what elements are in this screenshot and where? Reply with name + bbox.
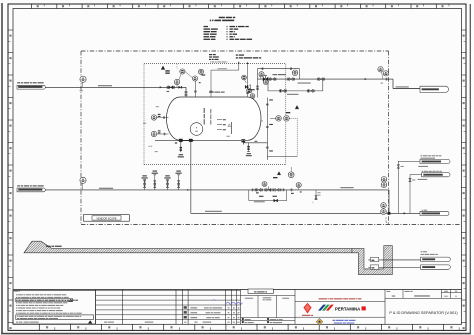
PSV valve dark on flare line [263,76,268,82]
dashed corner bottom [386,218,390,225]
drain stub with valve [178,142,184,157]
PERTAMINA arrows [318,305,334,311]
border ruler ticks bottom [39,324,459,330]
instrument bubble PG [185,72,198,82]
bubble LSL [284,116,290,122]
nozzle flange 2 [189,139,193,142]
riser to pressure instruments [176,85,178,88]
nozzle 243 drop [241,139,268,148]
logo divider 2 [295,316,385,318]
off-page connector 2 [422,173,450,177]
contractor diamond logo [316,318,323,325]
vent riser via header [210,62,240,98]
PSV set text block [209,54,228,62]
water line label [99,188,113,189]
water line corner down at boundary [388,190,391,215]
PSHH tag text [165,70,169,71]
burn pit hatched [352,246,392,275]
vessel V-501 shell [167,97,262,140]
right title grid [385,290,462,299]
notes text [16,294,82,313]
elbow into inlet nozzle [185,87,188,97]
pit pipe 1 [368,257,420,261]
vendor scope boundary dash-dot [81,51,460,225]
SDV valve on feed line [167,86,175,92]
vent line label [218,67,227,70]
LG dotted loop [289,118,297,156]
boundary tick flare [381,78,387,84]
valve flare 3 [318,78,325,81]
branch up 2 [409,175,422,214]
valve flare 1 [269,78,276,81]
off-page connector water [17,185,45,192]
bubble after LC [296,182,301,190]
title block top line [13,289,462,291]
connector 2 sublabel [418,179,428,180]
revision header row [104,321,240,324]
triangle right [295,106,299,109]
border ruler ticks right [462,30,467,329]
pit connector 1 [421,257,451,261]
divider [295,301,385,303]
instrument bubble PI [174,79,179,84]
bubble PI flare [259,72,264,79]
nozzle flange 1 [179,139,183,143]
PSV tag text below [248,89,255,92]
tag right of LC [291,189,302,194]
PSV valve [245,85,250,90]
left gauge bubble 1 [143,114,168,124]
cluster below bridle: triangle [277,172,280,175]
water line label right [340,187,353,188]
flare arrow [365,78,367,80]
manway [190,123,203,136]
page edge bottom [1,333,471,335]
approval section [241,289,296,324]
approval bottom rows [241,318,296,323]
dark boxed note row [15,299,72,302]
bubble PT flare [263,79,268,84]
vendor scope label [84,215,130,222]
left small tags [148,106,158,152]
LC extra flanges [255,189,284,192]
border ruler ticks top [32,4,449,9]
branch up 1 [397,161,420,213]
flange small left [175,141,177,143]
PERTAMINA wordmark [335,306,366,311]
grade hatched band [24,241,352,253]
connector to flare KO drum [420,86,449,92]
boundary bubble water [80,177,86,190]
pit pipe 2 [368,265,420,269]
alarm tag small [202,74,206,75]
pertamina EP kite logo [302,303,313,316]
rating tag 300 [286,112,290,113]
boundary bubbles water line [381,177,387,188]
off-page connector 3 [420,211,449,215]
svg-text:VENDOR SCOPE: VENDOR SCOPE [96,217,116,220]
cluster bubble [288,167,294,178]
sheet rev boxes [444,291,457,297]
flare line label mid [298,82,311,83]
instrument bubble PIT [198,69,203,74]
standpipe tags [261,99,273,151]
revision table grid [96,290,241,325]
valve flare 2 [288,78,295,81]
bubble on upper loop [292,70,298,76]
page edge right [469,4,471,334]
pipe produced water line [45,189,389,191]
equipment data block V-501 [204,17,253,40]
PSV riser [246,62,249,97]
weir plate [227,122,232,137]
level marks [217,119,226,130]
reducer text above vessel [209,92,214,93]
off-page connector inlet flowline [17,82,45,89]
bubbles LSH right top [247,88,255,98]
check valve before elbow [179,86,182,88]
boundary bubbles flare [378,67,389,79]
page edge left [1,3,3,334]
pit connector 2 [421,265,451,269]
bottom tangent line [155,140,194,142]
bypass label [287,94,298,95]
notes area [13,291,96,325]
instrument bubble PSH [179,69,185,80]
LC bypass loop [249,190,287,202]
border ruler ticks left [8,30,13,329]
drain stub on water line [313,190,321,203]
drain stub 1 [141,175,147,190]
revision entries [184,306,240,318]
logo section [384,290,386,325]
junction arrow at drop [187,189,189,191]
big boxed note [16,315,94,320]
flare header text [236,54,261,58]
text above connector 3 [422,210,424,211]
svg-text:PERTAMINA: PERTAMINA [335,306,360,311]
control valve LCV [259,186,271,196]
drain stub 3 [164,175,170,190]
oil arrow [404,212,406,214]
feed line label [98,85,112,86]
LC downstream valve [273,188,281,196]
bubble near PSV [242,75,247,83]
flow arrow feed [160,86,162,88]
upper PSV loop [257,67,299,79]
bridle bottom line [267,156,297,158]
skid boundary dotted box [144,64,286,165]
connector 1 sublabel [418,166,428,167]
inlet size label [168,114,174,115]
LC actuator bubble [262,182,267,187]
level standpipe right of vessel [266,98,269,161]
last note row [16,321,92,324]
contractor blue text [333,320,356,324]
signal drop from skid top [176,64,178,69]
approval sub-boxes [241,296,296,318]
vent triangle [161,66,165,70]
bubble LSH [270,116,281,122]
svg-text:P & ID DRAWING SEPARATOR (V-50: P & ID DRAWING SEPARATOR (V-501) [389,311,458,315]
drain stub 2 [152,171,158,190]
cluster text [273,177,277,178]
project red text [319,298,328,299]
riser to LIT [194,81,197,97]
oil line label [205,211,222,212]
text above connector 2 [422,171,424,172]
LC upstream valve [252,188,263,193]
flare exit label [396,86,409,87]
small tag near PG [199,82,201,83]
off-page connector 1 [420,159,450,163]
drawing number [405,291,430,297]
upper loop label [273,74,278,75]
pipe feed line [45,86,186,88]
vessel vertical tag text [204,108,212,125]
pipe flare line [256,79,389,97]
pipe oil outlet [191,212,420,214]
scale box [387,291,396,297]
boundary bubbles oil line [381,203,387,215]
boundary bubble on feed line [80,76,87,91]
bypass loop below flare line [268,79,323,92]
drain tee at 248.5 [246,143,252,156]
blue signature marks [213,300,243,305]
drain stub 4 [175,171,181,190]
oil-water drop pipe [190,142,192,213]
left gauge bubble 2 [151,130,168,136]
pit connector texts [421,251,438,255]
text above connector 1 [421,155,442,158]
flare jog [389,79,420,88]
